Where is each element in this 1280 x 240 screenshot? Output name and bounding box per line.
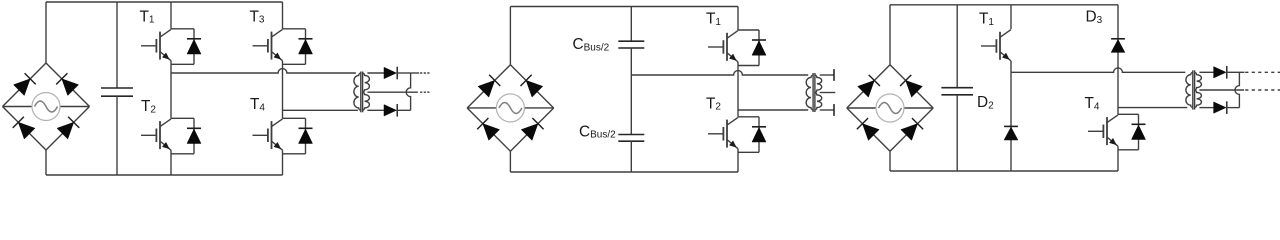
capacitor CBus/2 lower	[618, 135, 644, 142]
capacitor DC bus (right)	[941, 88, 973, 95]
wire	[3, 63, 47, 107]
wire D3/T4 junction to primary	[1118, 107, 1187, 109]
freewheel diode of T2 (middle)	[738, 117, 766, 153]
transistor T4 (right)	[1088, 115, 1118, 146]
diode D2	[1004, 126, 1018, 140]
label T2 (middle)	[706, 95, 721, 112]
wire T2 emitter (middle)	[737, 149, 739, 172]
freewheel diode of T4	[283, 118, 313, 154]
wire T4 emitter	[282, 150, 284, 175]
wire leg1 midpoint to primary (hops leg2)	[171, 69, 356, 73]
transistor T3	[253, 29, 283, 60]
bridge rectifier (right)	[847, 65, 933, 151]
freewheel diode of T4 (right)	[1118, 114, 1146, 150]
wire T1 collector	[170, 2, 172, 29]
wire bus leg lower	[630, 141, 632, 172]
wire midpoint to primary (hops D3 leg)	[1011, 68, 1185, 72]
bridge diode bottom-right	[901, 124, 918, 141]
wire centre-tap continuation (dotted)	[420, 91, 430, 93]
label T3	[250, 8, 265, 25]
transistor T2	[141, 119, 171, 150]
bridge diode bottom-right	[57, 122, 74, 139]
wire secondary bottom lead	[367, 109, 384, 111]
transformer TR1 secondary bottom half	[362, 92, 369, 110]
label CBus/2 upper	[573, 36, 610, 53]
output diode bottom (right circuit)	[1214, 101, 1227, 114]
wire bottom rail (middle circuit)	[510, 171, 738, 173]
wire rectifier to bottom rail	[509, 151, 511, 172]
freewheel diode of T1 (middle)	[738, 30, 766, 66]
AC source	[32, 93, 60, 121]
label D3	[1086, 9, 1103, 26]
wire centre-tap continuation (dotted)	[1245, 89, 1280, 91]
label T2	[141, 98, 156, 115]
AC source	[876, 94, 904, 122]
transformer TR3 core	[1193, 70, 1195, 109]
bridge diode top-left	[14, 79, 31, 96]
wire secondary centre tap terminal	[820, 92, 836, 94]
wire secondary centre tap	[367, 91, 418, 93]
bridge rectifier (left)	[3, 63, 90, 150]
output diode bottom (left circuit)	[384, 104, 397, 117]
transistor T2 (middle)	[708, 117, 738, 148]
wire	[46, 63, 90, 107]
wire bottom output	[397, 109, 411, 111]
bridge diode top-left	[858, 80, 875, 97]
wire leg2 midpoint	[282, 61, 284, 119]
label CBus/2 lower	[579, 123, 616, 140]
wire top output	[397, 72, 411, 74]
wire bottom output	[1226, 107, 1239, 109]
bridge rectifier (middle)	[467, 65, 554, 152]
label T4	[250, 96, 265, 113]
wire rectifier to top rail	[45, 2, 47, 63]
freewheel diode of T3	[283, 29, 313, 65]
wire D3 leg	[1117, 5, 1119, 115]
wire T1 collector (right)	[1010, 5, 1012, 29]
wire bus leg upper	[630, 7, 632, 42]
transformer TR3 secondary top half	[1194, 72, 1201, 90]
wire	[467, 108, 510, 151]
label T1 (right)	[979, 11, 994, 28]
wire capacitor tap to primary (hops IGBT leg)	[631, 71, 808, 75]
wire leg1 midpoint	[170, 61, 172, 119]
bridge diode bottom-left	[483, 124, 500, 141]
wire T1 collector	[737, 7, 739, 31]
diode D3	[1111, 39, 1125, 53]
transformer TR2 core	[813, 73, 815, 112]
wire T2 emitter	[170, 150, 172, 175]
wire	[904, 107, 933, 109]
bridge diode top-right	[62, 79, 79, 96]
wire capacitor bottom lead	[116, 96, 118, 175]
terminal bar bottom	[833, 104, 835, 116]
transformer TR1 secondary top half	[362, 73, 369, 92]
wire secondary bottom lead	[1199, 107, 1213, 109]
wire	[3, 107, 47, 151]
wire T3 collector	[282, 2, 284, 29]
wire T1 emitter / D2 leg	[1010, 61, 1012, 171]
label T4 (right)	[1085, 95, 1100, 112]
wire output junction (hops centre tap)	[406, 73, 410, 110]
output diode top (right circuit)	[1214, 66, 1227, 79]
wire secondary top terminal	[820, 74, 834, 76]
wire	[847, 108, 890, 151]
terminal bar top	[833, 69, 835, 81]
transformer TR3 secondary bottom half	[1194, 90, 1201, 108]
wire capacitor bottom lead	[956, 95, 958, 171]
wire secondary centre tap	[1199, 89, 1244, 91]
label T1	[140, 8, 155, 25]
wire	[510, 65, 553, 108]
wire	[3, 106, 33, 108]
wire bus leg middle	[630, 48, 632, 135]
bridge diode bottom-right	[521, 124, 538, 141]
AC source	[496, 94, 524, 122]
transformer TR2 secondary bottom half	[815, 93, 822, 111]
transformer TR1 primary winding	[354, 73, 361, 110]
wire capacitor top lead	[116, 2, 118, 88]
freewheel diode of T1	[171, 29, 201, 65]
transistor T4	[253, 119, 283, 150]
wire top rail (middle circuit)	[510, 6, 738, 8]
wire bottom rail (left circuit)	[46, 174, 283, 176]
wire	[467, 107, 496, 109]
output diode top (left circuit)	[384, 67, 397, 80]
label T1 (middle)	[706, 10, 721, 27]
wire secondary top lead	[367, 72, 384, 74]
transistor T1 (right)	[981, 30, 1011, 61]
wire leg2 midpoint to primary	[283, 109, 358, 111]
wire top output	[1226, 71, 1239, 73]
wire secondary bottom terminal	[820, 109, 834, 111]
wire output continuation (dotted)	[1239, 71, 1280, 73]
label D2	[977, 94, 994, 111]
transistor T1	[141, 29, 171, 60]
wire top rail (left circuit)	[46, 1, 283, 3]
capacitor CBus/2 upper	[618, 41, 644, 48]
wire secondary top lead	[1199, 71, 1213, 73]
transformer TR2 secondary top half	[815, 75, 822, 93]
wire rectifier to bottom rail	[45, 150, 47, 175]
transistor T1 (middle)	[708, 31, 738, 62]
transformer TR2 primary winding	[806, 75, 813, 110]
wire leg midpoint	[737, 62, 739, 117]
wire	[524, 107, 553, 109]
bridge diode top-right	[906, 80, 923, 97]
wire rectifier to top rail	[889, 5, 891, 65]
capacitor DC bus (left)	[101, 88, 133, 96]
wire bottom rail (right circuit)	[890, 170, 1118, 172]
bridge diode bottom-left	[18, 122, 35, 139]
freewheel diode of T2	[171, 118, 201, 154]
wire output junction (hops centre tap)	[1235, 72, 1239, 107]
wire rectifier to top rail	[509, 7, 511, 65]
wire	[890, 108, 933, 151]
wire	[890, 65, 933, 108]
wire	[467, 65, 510, 108]
bridge diode top-right	[526, 80, 543, 97]
wire T4 emitter (right)	[1117, 146, 1119, 171]
wire capacitor top lead	[956, 5, 958, 88]
wire	[46, 107, 90, 151]
bridge diode top-left	[478, 80, 495, 97]
wire	[847, 65, 890, 108]
wire leg midpoint to primary	[738, 109, 808, 111]
wire output continuation (dotted)	[411, 72, 430, 74]
bridge diode bottom-left	[862, 124, 879, 141]
wire top rail (right circuit)	[890, 4, 1118, 6]
wire rectifier to bottom rail	[889, 151, 891, 171]
wire	[60, 106, 90, 108]
transformer TR1 core	[361, 72, 363, 113]
transformer TR3 primary winding	[1186, 72, 1193, 107]
wire	[847, 107, 876, 109]
wire	[510, 108, 553, 151]
